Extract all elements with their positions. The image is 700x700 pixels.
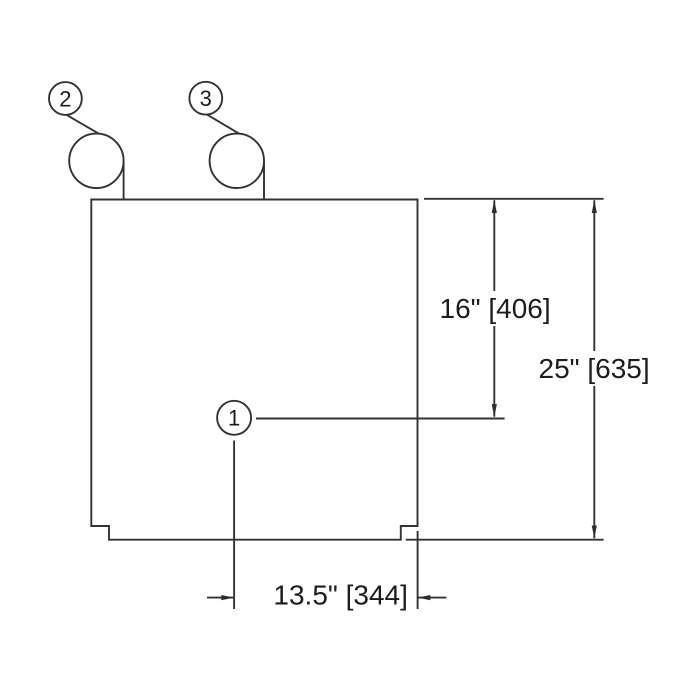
- svg-text:2: 2: [59, 86, 71, 111]
- svg-text:13.5" [344]: 13.5" [344]: [273, 580, 408, 611]
- svg-text:16" [406]: 16" [406]: [440, 293, 551, 324]
- svg-text:25" [635]: 25" [635]: [539, 353, 650, 384]
- svg-text:3: 3: [200, 86, 212, 111]
- svg-text:1: 1: [228, 405, 240, 430]
